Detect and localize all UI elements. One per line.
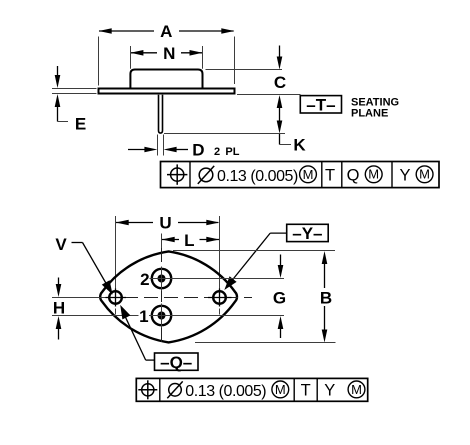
svg-text:A: A — [160, 22, 172, 41]
FCF1 M circle 3 — [416, 166, 433, 183]
svg-text:–T–: –T– — [306, 96, 335, 115]
svg-text:V: V — [55, 235, 67, 254]
extension line E bottom — [52, 93, 97, 95]
svg-text:G: G — [273, 288, 286, 307]
FCF2 M circle 2 — [348, 381, 365, 398]
svg-text:2: 2 — [140, 270, 149, 289]
svg-text:H: H — [53, 299, 65, 318]
extension line pin2 level (G top) — [150, 278, 285, 280]
svg-text:PL: PL — [225, 146, 239, 158]
svg-text:K: K — [293, 136, 306, 155]
extension line body top (B top) — [173, 250, 335, 252]
svg-text:U: U — [159, 214, 171, 233]
extension line cap top (for C) — [206, 69, 283, 71]
FCF1 diameter symbol — [198, 166, 214, 184]
extension line body bottom (B bottom) — [195, 342, 336, 344]
extension line U left — [115, 216, 117, 289]
svg-text:Y: Y — [399, 167, 410, 185]
svg-text:M: M — [275, 382, 286, 397]
FCF1 M circle 2 — [365, 166, 382, 183]
FCF2 position symbol — [138, 380, 157, 399]
pin 1 (bottom) — [152, 304, 171, 329]
svg-text:E: E — [75, 114, 86, 133]
datum -Q- box — [155, 353, 199, 372]
FCF2 diameter symbol — [167, 381, 182, 398]
FCF1 M circle 1 — [300, 166, 317, 183]
cap (can body) — [130, 70, 202, 88]
dimension U line — [116, 220, 220, 226]
svg-text:Y: Y — [324, 382, 335, 400]
extension line E top — [52, 88, 97, 90]
pin 2 (top) — [152, 267, 171, 292]
extension line A left — [98, 37, 100, 86]
horizontal centerline through holes (dashed) — [104, 297, 252, 299]
extension line N left — [130, 46, 132, 69]
body outline (flange lens shape) — [100, 251, 237, 342]
svg-text:M: M — [351, 382, 362, 397]
dimension N line — [130, 50, 202, 56]
dimension L line — [162, 237, 220, 243]
svg-text:PLANE: PLANE — [351, 108, 388, 120]
extension line U/L right — [219, 216, 221, 289]
FCF1 position symbol — [167, 164, 187, 184]
seating plane line — [237, 94, 301, 96]
svg-text:1: 1 — [139, 307, 148, 326]
extension line pin1 level (H/G bottom) — [52, 315, 139, 317]
dimension K double arrow — [277, 95, 291, 145]
FCF2 dividers — [160, 378, 317, 401]
datum -Y- box — [287, 224, 329, 243]
svg-text:Q: Q — [347, 167, 360, 185]
svg-text:–Y–: –Y– — [292, 224, 322, 243]
extension line H top — [52, 297, 112, 299]
FCF1 dividers — [190, 162, 392, 188]
svg-text:T: T — [301, 382, 311, 400]
vertical centerline through pins (dashed) — [161, 248, 163, 346]
FCF1 frame — [161, 162, 440, 188]
dimension H arrows — [56, 278, 62, 340]
svg-text:B: B — [320, 288, 332, 307]
dimension C arrow — [277, 46, 283, 70]
svg-text:N: N — [163, 44, 175, 63]
dimension E arrows — [55, 66, 68, 122]
leader V — [72, 243, 113, 295]
extension lines D — [157, 135, 159, 156]
mounting hole right — [208, 281, 232, 315]
svg-text:T: T — [325, 167, 335, 185]
svg-text:2: 2 — [214, 146, 220, 158]
svg-text:D: D — [192, 141, 204, 160]
extension line N right — [202, 46, 204, 69]
svg-text:0.13 (0.005): 0.13 (0.005) — [217, 168, 298, 185]
svg-text:L: L — [184, 231, 194, 250]
FCF2 frame — [136, 378, 367, 401]
flange — [99, 89, 235, 94]
svg-text:0.13 (0.005): 0.13 (0.005) — [185, 383, 266, 400]
dimension G arrows — [278, 255, 284, 339]
dimension A line — [99, 28, 235, 34]
dimension B arrows — [322, 251, 328, 343]
svg-text:–Q–: –Q– — [160, 353, 192, 372]
mounting hole left — [106, 281, 127, 315]
svg-text:M: M — [419, 167, 430, 182]
svg-text:M: M — [303, 167, 314, 182]
svg-text:M: M — [368, 167, 379, 182]
extension line A right — [234, 37, 236, 85]
extension line L left (pin centerline top) — [161, 234, 163, 249]
leader Y — [224, 233, 286, 290]
svg-text:C: C — [274, 73, 286, 92]
extension line K (lead tip level) — [164, 133, 285, 135]
datum -T- box — [300, 96, 341, 115]
pin (side view) — [159, 95, 163, 133]
leader Q — [120, 305, 154, 360]
dimension D arrows — [128, 147, 188, 153]
FCF2 M circle 1 — [272, 381, 289, 398]
